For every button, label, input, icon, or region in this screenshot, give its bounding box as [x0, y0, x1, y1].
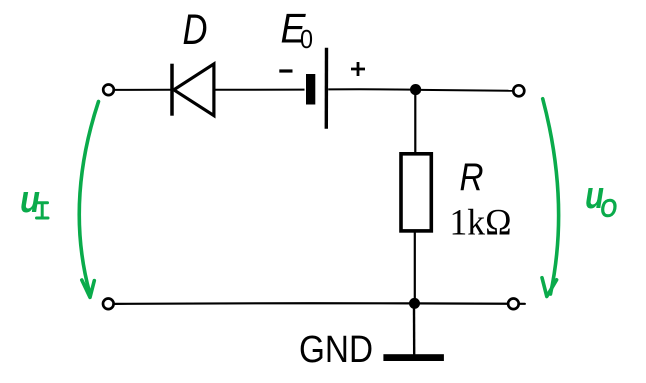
battery E0 negative plate (thick short bar) [306, 74, 315, 105]
arrowhead uI [82, 280, 95, 297]
minus sign (battery negative) [279, 69, 292, 72]
wire: resistor to node B [414, 233, 416, 302]
voltage arrow uI (left, curved green) [79, 102, 98, 294]
voltage arrow uO (right, curved green) [543, 99, 559, 294]
wire: node B down to ground [413, 309, 416, 356]
node B junction dot (bottom) [409, 298, 420, 309]
plus sign (battery positive) [351, 62, 365, 76]
wire: diode to battery [216, 89, 305, 91]
ground bar [383, 354, 444, 361]
svg-text:u: u [20, 179, 40, 221]
terminal: bottom-right [508, 299, 519, 310]
diode D triangle [174, 64, 214, 116]
wire: node A to output terminal [421, 89, 514, 92]
svg-text:GND: GND [299, 329, 373, 371]
svg-text:D: D [183, 6, 208, 54]
resistor R box [401, 154, 431, 231]
terminal: top-right output [513, 85, 524, 96]
battery E0 positive plate (tall thin bar) [325, 48, 329, 129]
svg-text:R: R [460, 156, 484, 199]
wire: top-left rail (input terminal to diode) [115, 89, 171, 91]
terminal: bottom-left [103, 299, 114, 310]
arrowhead uO [542, 278, 557, 297]
svg-text:O: O [600, 193, 617, 223]
wire: node A down to resistor [414, 94, 416, 152]
wire: bottom rail [115, 302, 525, 305]
svg-text:1kΩ: 1kΩ [450, 203, 512, 244]
wire: battery to node A [328, 88, 411, 90]
node A junction dot (top) [410, 84, 421, 95]
diode D cathode bar [170, 64, 174, 116]
terminal: top-left input [103, 85, 114, 96]
svg-text:0: 0 [300, 24, 313, 54]
